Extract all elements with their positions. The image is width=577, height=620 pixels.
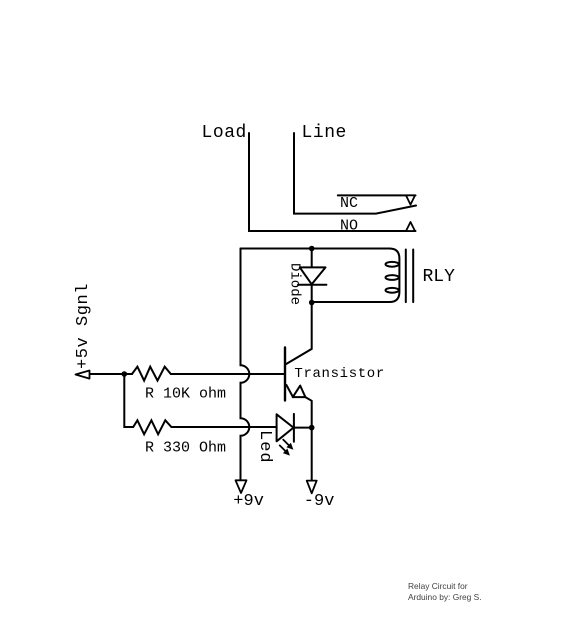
svg-text:+9v: +9v xyxy=(233,492,264,511)
svg-text:+5v Sgnl: +5v Sgnl xyxy=(74,283,93,369)
svg-text:Led: Led xyxy=(255,430,274,464)
svg-text:Transistor: Transistor xyxy=(294,366,385,382)
svg-text:NC: NC xyxy=(340,195,358,212)
svg-text:Arduino by: Greg S.: Arduino by: Greg S. xyxy=(408,592,482,602)
svg-text:Relay Circuit for: Relay Circuit for xyxy=(408,581,468,591)
svg-text:Load: Load xyxy=(202,123,247,143)
svg-text:R 10K ohm: R 10K ohm xyxy=(145,386,226,403)
svg-text:-9v: -9v xyxy=(304,492,335,511)
svg-text:NO: NO xyxy=(340,218,358,235)
svg-text:Diode: Diode xyxy=(287,263,303,305)
svg-text:RLY: RLY xyxy=(423,267,456,287)
svg-text:Line: Line xyxy=(302,123,347,143)
svg-text:R 330 Ohm: R 330 Ohm xyxy=(145,440,226,457)
